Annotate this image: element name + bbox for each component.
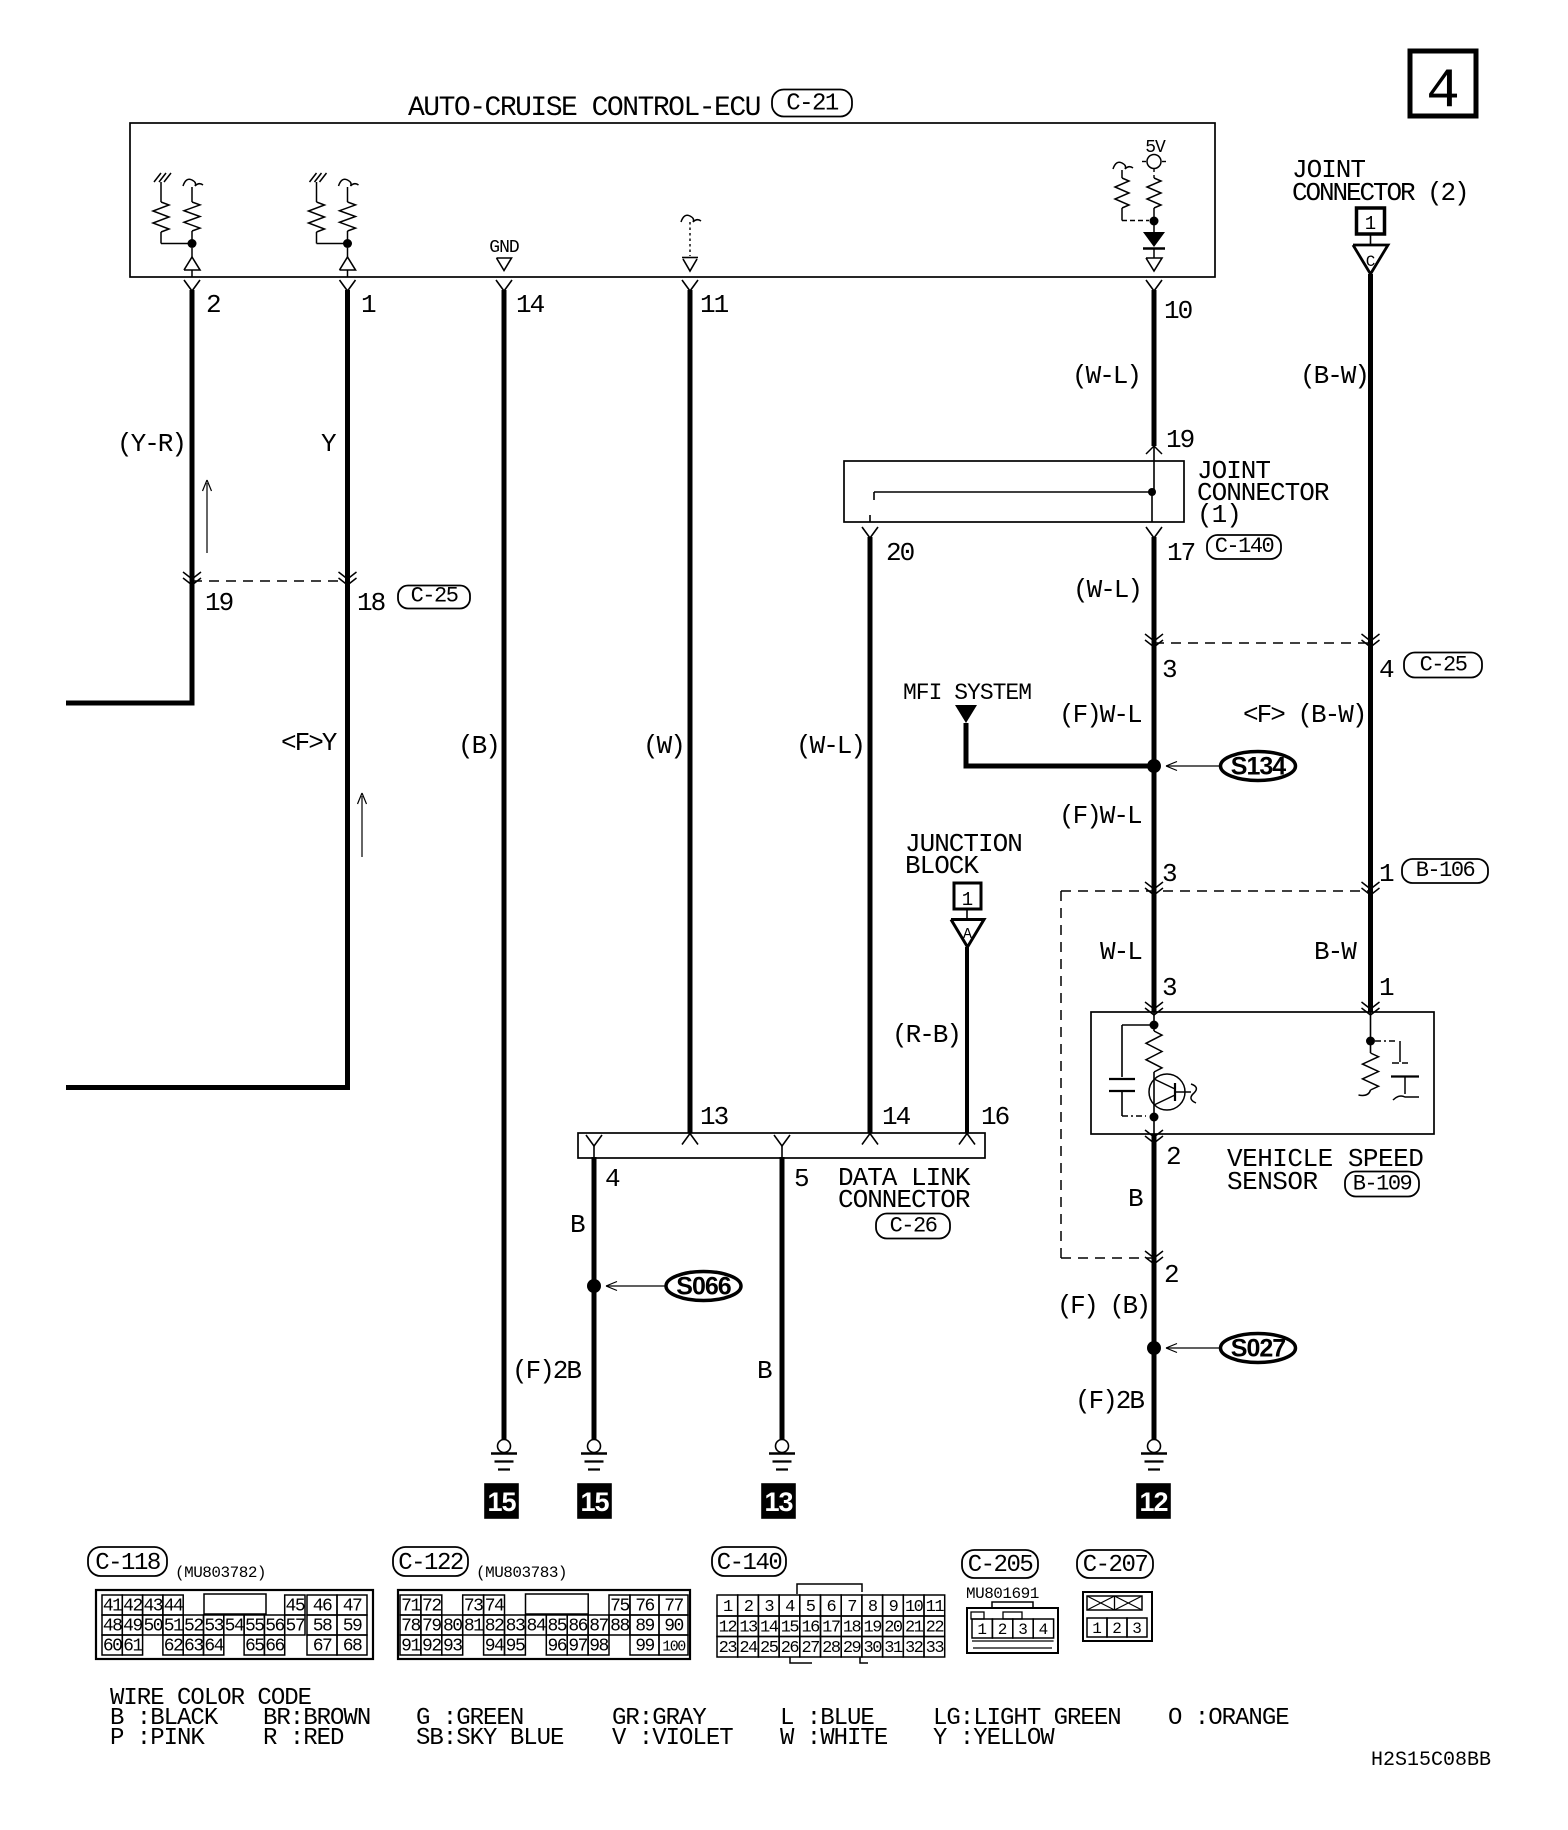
svg-text:3: 3 (1018, 1621, 1028, 1639)
svg-text:O :ORANGE: O :ORANGE (1168, 1705, 1289, 1732)
svg-text:50: 50 (143, 1617, 162, 1637)
svg-text:12: 12 (1139, 1487, 1167, 1517)
svg-text:GND: GND (489, 238, 519, 258)
svg-text:15: 15 (487, 1487, 516, 1517)
svg-text:B-109: B-109 (1353, 1172, 1412, 1197)
5V circle side ticks (1142, 161, 1146, 163)
svg-text:98: 98 (589, 1637, 608, 1657)
svg-text:Y: Y (321, 429, 337, 459)
resistor left of pin10 (1121, 170, 1123, 178)
junction dot pin1 (343, 239, 352, 248)
svg-text:97: 97 (568, 1637, 587, 1657)
C-140 top bracket (797, 1584, 862, 1594)
svg-text:18: 18 (357, 588, 385, 618)
chevron pin 19 into joint connector 1 (1146, 446, 1154, 454)
junction dot pin10 (1150, 217, 1159, 226)
svg-text:5: 5 (794, 1164, 808, 1194)
svg-text:C-25: C-25 (411, 584, 458, 609)
svg-text:62: 62 (164, 1637, 183, 1657)
curly hook above pin2 resistor (183, 179, 203, 186)
junction dot JC1 bus (1148, 488, 1156, 496)
svg-text:2: 2 (1112, 1620, 1122, 1638)
page number box 4 (1410, 51, 1476, 116)
chevron wire11 into DLC (682, 1134, 698, 1145)
connector drawing C-205 (967, 1608, 1058, 1653)
connector ref C-21 pill (772, 90, 852, 117)
svg-text:4: 4 (1426, 59, 1460, 123)
junction dot S066 (587, 1279, 601, 1293)
pin 20 fork (862, 527, 878, 538)
resistor in VSS right (1363, 1053, 1379, 1090)
resistor pair above pin 1 - chassis hash (310, 173, 317, 182)
wire pin11 (W) (688, 290, 693, 1133)
connector drawing C-207 (1083, 1592, 1152, 1641)
svg-text:1: 1 (977, 1621, 987, 1639)
dashed inline connector C-25 left (192, 580, 348, 582)
svg-text:42: 42 (123, 1597, 142, 1617)
svg-text:53: 53 (204, 1617, 223, 1637)
svg-text:73: 73 (464, 1597, 483, 1617)
svg-text:3: 3 (1162, 859, 1176, 889)
svg-text:20: 20 (884, 1619, 903, 1638)
svg-text:15: 15 (580, 1487, 609, 1517)
svg-text:79: 79 (422, 1617, 441, 1637)
junction dot VSS top-left (1150, 1021, 1159, 1030)
junction block box 1 (954, 883, 981, 909)
connector pill C-122 (393, 1547, 468, 1576)
VSS left exit lead (1153, 1117, 1155, 1134)
svg-text:19: 19 (1166, 425, 1194, 455)
svg-text:17: 17 (822, 1619, 840, 1638)
joint connector 2 triangle C (1370, 234, 1372, 244)
VSS left lead (1153, 1012, 1155, 1031)
svg-text:83: 83 (506, 1617, 525, 1637)
svg-text:1: 1 (1379, 859, 1394, 889)
svg-text:2: 2 (1164, 1260, 1178, 1290)
pin 17 fork (1146, 527, 1162, 538)
pin 11 dotted lead (689, 222, 691, 256)
svg-text:3: 3 (764, 1598, 774, 1617)
svg-text:75: 75 (610, 1597, 629, 1617)
connector pill C-207 (1077, 1550, 1153, 1578)
svg-text:45: 45 (286, 1597, 305, 1617)
svg-text:A: A (963, 926, 972, 943)
svg-text:2: 2 (998, 1621, 1008, 1639)
svg-text:B: B (757, 1356, 772, 1386)
pin 11 open down arrow (682, 257, 698, 259)
svg-text:86: 86 (568, 1617, 587, 1637)
svg-text:B-W: B-W (1314, 937, 1357, 967)
svg-text:14: 14 (882, 1102, 911, 1132)
svg-text:26: 26 (781, 1639, 800, 1658)
pin 14 fork (496, 280, 512, 291)
wire DLC pin4 B (593, 1146, 595, 1158)
connector table C-122 (398, 1590, 690, 1659)
connector pill C-205 (962, 1550, 1038, 1578)
direction arrow wire2 (206, 483, 208, 553)
resistor left of pin1 (316, 182, 318, 202)
wire MFI to S134 (966, 723, 1150, 766)
svg-text:72: 72 (422, 1597, 441, 1617)
ground symbol wire4 (588, 1440, 601, 1453)
svg-text:61: 61 (123, 1637, 142, 1657)
curly hook above left resistor pin10 (1113, 162, 1133, 169)
svg-text:C-207: C-207 (1083, 1552, 1148, 1579)
svg-text:(Y-R): (Y-R) (117, 429, 185, 459)
junction dot VSS right (1366, 1037, 1375, 1046)
svg-text:28: 28 (822, 1639, 841, 1658)
svg-text:31: 31 (884, 1639, 903, 1658)
resistor R right of pin2 (191, 187, 193, 202)
connector table C-140 (717, 1595, 738, 1616)
svg-text:(F)W-L: (F)W-L (1059, 801, 1141, 831)
svg-text:2: 2 (1166, 1142, 1180, 1172)
pin 11 internal curly hook (681, 215, 701, 222)
svg-text:C: C (1366, 253, 1376, 271)
svg-text:1: 1 (723, 1598, 733, 1617)
dashed harness box (1060, 891, 1062, 1258)
connector pill B-109 (1345, 1172, 1419, 1197)
resistor R left of pin2 (160, 182, 162, 202)
svg-text:57: 57 (286, 1617, 305, 1637)
svg-text:C-122: C-122 (398, 1550, 463, 1577)
svg-text:59: 59 (343, 1617, 362, 1637)
VSS right lead (1370, 1012, 1372, 1053)
VSS capacitor branch (1122, 1024, 1154, 1026)
connector pill C-25 left (398, 586, 470, 609)
svg-text:95: 95 (506, 1637, 525, 1657)
svg-text:7: 7 (847, 1598, 856, 1617)
chevron wire17 into VSS (1145, 1002, 1163, 1009)
svg-text:100: 100 (662, 1639, 686, 1656)
curly hook above pin1 resistor (339, 179, 359, 186)
svg-text:56: 56 (265, 1617, 284, 1637)
svg-text:30: 30 (864, 1639, 883, 1658)
svg-text:C-21: C-21 (786, 91, 839, 118)
pin 5 fork DLC (774, 1135, 790, 1146)
chevron wire20 into DLC (862, 1134, 878, 1145)
svg-text:96: 96 (547, 1637, 566, 1657)
svg-text:W :WHITE: W :WHITE (780, 1725, 888, 1752)
diode pin10 (1153, 225, 1155, 232)
wire pin2 (Y-R) (66, 290, 192, 703)
svg-text:(B-W): (B-W) (1300, 361, 1368, 391)
svg-text:49: 49 (123, 1617, 142, 1637)
svg-text:14: 14 (516, 290, 545, 320)
svg-text:BLOCK: BLOCK (905, 851, 979, 881)
VSS magnet element (1375, 1040, 1398, 1042)
svg-text:Y :YELLOW: Y :YELLOW (933, 1725, 1055, 1752)
svg-text:SB:SKY BLUE: SB:SKY BLUE (416, 1725, 564, 1752)
svg-text:99: 99 (635, 1637, 654, 1657)
svg-text:12: 12 (719, 1619, 737, 1638)
wire junction block (R-B) (965, 947, 969, 1133)
resistor below 5V pin10 (1147, 178, 1161, 208)
svg-text:65: 65 (245, 1637, 264, 1657)
svg-text:C-140: C-140 (1215, 534, 1274, 559)
svg-text:92: 92 (422, 1637, 441, 1657)
ECU box C-21 outline (130, 123, 1215, 277)
svg-text:(F)W-L: (F)W-L (1059, 700, 1141, 730)
svg-text:B: B (570, 1210, 585, 1240)
svg-text:S027: S027 (1231, 1335, 1285, 1363)
svg-text:23: 23 (719, 1639, 738, 1658)
svg-text:10: 10 (1164, 296, 1192, 326)
svg-text:33: 33 (926, 1639, 945, 1658)
ground symbol wire14 (498, 1440, 511, 1453)
chevron wireB-W into VSS (1362, 1002, 1380, 1009)
svg-text:18: 18 (843, 1619, 862, 1638)
ground symbol right (1148, 1440, 1161, 1453)
chevron wireB-W at B-106 (1362, 882, 1380, 889)
page ref 15 left (485, 1484, 518, 1518)
svg-text:29: 29 (843, 1639, 862, 1658)
svg-text:64: 64 (204, 1637, 223, 1657)
connector pill B-106 (1402, 859, 1488, 883)
pin 1 fork (340, 280, 356, 291)
svg-text:S066: S066 (676, 1273, 730, 1301)
wire pin1 Y (66, 290, 348, 1088)
svg-text:58: 58 (313, 1617, 332, 1637)
chevron at harness box bottom (1145, 1251, 1163, 1258)
svg-text:W-L: W-L (1100, 937, 1141, 967)
svg-text:6: 6 (826, 1598, 836, 1617)
svg-text:B-106: B-106 (1416, 858, 1475, 883)
svg-text:52: 52 (184, 1617, 203, 1637)
svg-text:5: 5 (806, 1598, 816, 1617)
svg-text:CONNECTOR: CONNECTOR (838, 1185, 970, 1215)
junction dot pin2 (188, 239, 197, 248)
svg-text:77: 77 (664, 1597, 683, 1617)
svg-text:66: 66 (265, 1637, 284, 1657)
svg-text:47: 47 (343, 1597, 362, 1617)
dashed inline connector C-25 right (1154, 642, 1371, 644)
svg-text:1: 1 (361, 290, 376, 320)
svg-text:(W-L): (W-L) (1072, 361, 1140, 391)
svg-text:3: 3 (1162, 655, 1176, 685)
pin 1 internal terminal triangle (347, 248, 349, 257)
svg-text:76: 76 (635, 1597, 654, 1617)
svg-text:91: 91 (401, 1637, 420, 1657)
transistor in VSS (1149, 1074, 1185, 1110)
splice S027 (1221, 1334, 1296, 1363)
chevron wireRB into DLC (959, 1134, 975, 1145)
wire pin14 (B) to ground (502, 290, 507, 1440)
junction block triangle A (966, 909, 968, 918)
svg-text:R :RED: R :RED (263, 1725, 344, 1752)
connector pill C-26 (876, 1214, 950, 1239)
svg-text:4: 4 (1039, 1621, 1049, 1639)
svg-text:(MU803782): (MU803782) (175, 1564, 266, 1582)
svg-text:MU801691: MU801691 (966, 1585, 1039, 1603)
svg-text:H2S15C08BB: H2S15C08BB (1371, 1749, 1491, 1772)
connector pill C-118 (88, 1547, 167, 1576)
data link connector box C-26 (578, 1133, 985, 1158)
chevron wire17 at B-106 (1145, 882, 1163, 889)
svg-text:3: 3 (1162, 973, 1176, 1003)
thin lead pin19 inside JC1 (1153, 446, 1155, 492)
svg-text:13: 13 (739, 1619, 758, 1638)
resistor pair above pin 2 - chassis hash (154, 173, 161, 182)
svg-text:67: 67 (313, 1637, 332, 1657)
svg-text:82: 82 (485, 1617, 504, 1637)
svg-text:41: 41 (103, 1597, 122, 1617)
svg-text:C-26: C-26 (890, 1214, 937, 1239)
svg-text:44: 44 (164, 1597, 183, 1617)
svg-text:2: 2 (206, 290, 220, 320)
svg-text:(1): (1) (1197, 500, 1241, 530)
svg-text:46: 46 (313, 1597, 332, 1617)
ground symbol wire5 (776, 1440, 789, 1453)
svg-text:11: 11 (700, 290, 729, 320)
svg-text:88: 88 (610, 1617, 629, 1637)
wire joint connector 2 (B-W) (1368, 274, 1373, 1012)
junction dot VSS bottom-left (1150, 1113, 1159, 1122)
svg-text:48: 48 (103, 1617, 122, 1637)
svg-text:51: 51 (164, 1617, 183, 1637)
svg-text:25: 25 (760, 1639, 779, 1658)
svg-text:14: 14 (760, 1619, 779, 1638)
svg-text:C-118: C-118 (95, 1550, 160, 1577)
svg-text:C-140: C-140 (717, 1550, 782, 1577)
pin 10 fork (1146, 280, 1162, 291)
MFI system triangle (955, 705, 977, 723)
pin 10 open down arrow (1146, 258, 1162, 271)
arrow S066 (606, 1285, 665, 1287)
dashed inline connector B-106 (1061, 890, 1371, 892)
svg-text:89: 89 (635, 1617, 654, 1637)
svg-text:19: 19 (864, 1619, 883, 1638)
svg-text:68: 68 (343, 1637, 362, 1657)
resistor in VSS left (1146, 1031, 1162, 1072)
chevron wire2 at C-25 (183, 572, 201, 579)
svg-text:(W): (W) (643, 731, 684, 761)
svg-text:4: 4 (785, 1598, 795, 1617)
svg-text:C-205: C-205 (968, 1552, 1033, 1579)
svg-text:4: 4 (1379, 655, 1394, 685)
svg-text:13: 13 (700, 1102, 728, 1132)
svg-text:SENSOR: SENSOR (1227, 1167, 1318, 1197)
vehicle speed sensor box (1091, 1012, 1434, 1134)
svg-text:19: 19 (205, 588, 233, 618)
svg-text:87: 87 (589, 1617, 608, 1637)
svg-text:1: 1 (962, 889, 973, 911)
chevron wire17 at C-25 (1145, 634, 1163, 641)
svg-text:80: 80 (443, 1617, 462, 1637)
svg-text:<F> (B-W): <F> (B-W) (1243, 700, 1365, 730)
svg-text:(R-B): (R-B) (892, 1020, 960, 1050)
svg-text:9: 9 (889, 1598, 899, 1617)
svg-text:2: 2 (744, 1598, 753, 1617)
arrow S027 (1166, 1347, 1219, 1349)
page ref 15 mid (578, 1484, 611, 1518)
svg-text:90: 90 (664, 1617, 683, 1637)
svg-text:(F) (B): (F) (B) (1057, 1291, 1149, 1321)
svg-text:(W-L): (W-L) (796, 731, 864, 761)
svg-text:P :PINK: P :PINK (110, 1725, 205, 1752)
svg-text:1: 1 (1379, 973, 1394, 1003)
joint connector 1 internal bus (874, 491, 1152, 493)
pin 11 fork (682, 280, 698, 291)
svg-text:1: 1 (1092, 1620, 1102, 1638)
svg-text:(W-L): (W-L) (1073, 575, 1141, 605)
dashed lead from 5V circle (1153, 169, 1155, 178)
svg-text:21: 21 (905, 1619, 924, 1638)
pin 4 fork DLC (586, 1135, 602, 1146)
svg-text:(B): (B) (458, 731, 499, 761)
wire pin10 (W-L) to joint connector 1 (1152, 290, 1157, 446)
splice S066 (666, 1272, 741, 1301)
wire VSS pin2 B (1152, 1134, 1157, 1440)
connector pill C-140 bottom (712, 1547, 786, 1576)
5V circle (1147, 155, 1161, 169)
svg-text:55: 55 (245, 1617, 264, 1637)
svg-text:(F)2B: (F)2B (1075, 1386, 1144, 1416)
direction arrow wire1 (361, 796, 363, 857)
resistor right of pin1 (347, 187, 349, 202)
connector pill C-25 right (1404, 653, 1482, 678)
C-140 bottom tabs (790, 1657, 812, 1663)
splice S134 (1221, 752, 1296, 781)
pin 2 fork (184, 280, 200, 291)
connector pill C-140 (1207, 535, 1281, 559)
svg-text:10: 10 (905, 1598, 924, 1617)
svg-text:<F>Y: <F>Y (281, 728, 338, 758)
svg-text:43: 43 (143, 1597, 162, 1617)
svg-text:3: 3 (1132, 1620, 1142, 1638)
svg-text:71: 71 (401, 1597, 420, 1617)
connector table C-118 (96, 1590, 373, 1659)
svg-text:78: 78 (401, 1617, 420, 1637)
svg-text:85: 85 (547, 1617, 566, 1637)
joint connector 2 box 1 (1357, 208, 1385, 234)
svg-text:54: 54 (225, 1617, 244, 1637)
svg-text:94: 94 (485, 1637, 504, 1657)
arrow S134 (1166, 765, 1219, 767)
chevron wireB-W at C-25 (1362, 634, 1380, 641)
junction dot S134 (1147, 759, 1161, 773)
pin 2 internal terminal triangle (191, 248, 193, 257)
wire pin 20 (W-L) (868, 537, 873, 1133)
svg-text:4: 4 (605, 1164, 620, 1194)
svg-text:8: 8 (868, 1598, 878, 1617)
svg-text:S134: S134 (1231, 753, 1286, 781)
svg-text:60: 60 (103, 1637, 122, 1657)
svg-text:(F)2B: (F)2B (512, 1356, 581, 1386)
svg-text:81: 81 (464, 1617, 483, 1637)
svg-text:32: 32 (905, 1639, 923, 1658)
svg-text:11: 11 (926, 1598, 945, 1617)
junction dot S027 (1147, 1341, 1161, 1355)
svg-text:16: 16 (981, 1102, 1009, 1132)
svg-text:B: B (1128, 1184, 1143, 1214)
wire pin 17 (W-L) main vertical (1152, 537, 1157, 1012)
svg-text:24: 24 (739, 1639, 758, 1658)
svg-text:22: 22 (926, 1619, 944, 1638)
svg-text:27: 27 (801, 1639, 819, 1658)
capacitor in VSS (1109, 1078, 1135, 1080)
svg-text:16: 16 (801, 1619, 820, 1638)
svg-text:MFI SYSTEM: MFI SYSTEM (903, 680, 1031, 706)
svg-text:C-25: C-25 (1420, 653, 1467, 678)
svg-text:93: 93 (443, 1637, 462, 1657)
GND triangle pin 14 (497, 258, 512, 271)
svg-text:15: 15 (781, 1619, 800, 1638)
svg-text:13: 13 (764, 1487, 793, 1517)
svg-text:74: 74 (485, 1597, 504, 1617)
svg-text:63: 63 (184, 1637, 203, 1657)
svg-text:84: 84 (527, 1617, 546, 1637)
